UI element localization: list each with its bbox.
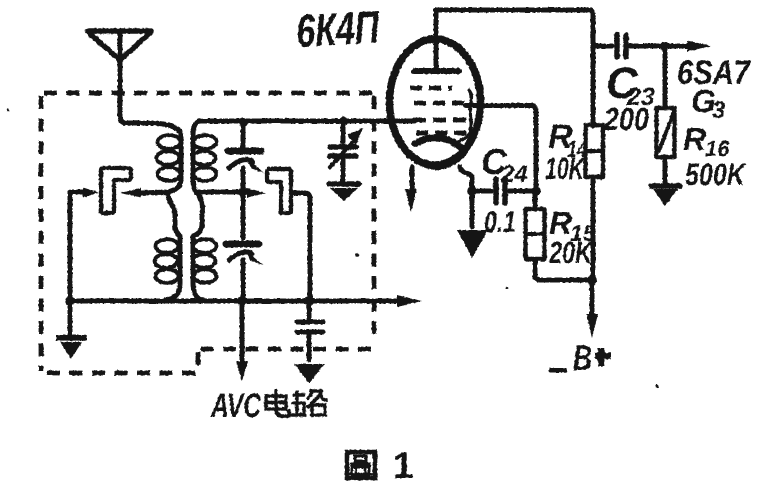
svg-text:20K: 20K [548,235,594,270]
svg-text:6К4П: 6К4П [295,1,381,57]
svg-text:0.1: 0.1 [484,206,516,239]
svg-text:3: 3 [712,97,726,124]
svg-text:24: 24 [500,161,528,188]
svg-text:1: 1 [393,445,414,486]
svg-text:200: 200 [603,101,649,137]
svg-text:AVC: AVC [210,387,261,425]
svg-text:500K: 500K [685,157,747,192]
svg-text:10K: 10K [545,151,586,186]
svg-text:R: R [683,121,706,157]
svg-text:B: B [573,337,592,378]
